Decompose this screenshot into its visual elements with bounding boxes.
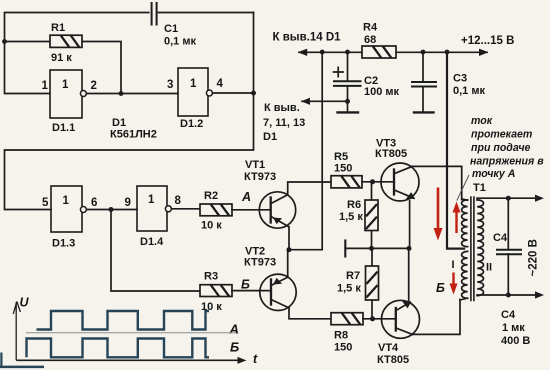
svg-text:С3: С3 [453,73,467,85]
svg-text:150: 150 [334,163,352,175]
svg-text:напряжения в: напряжения в [470,155,544,167]
svg-text:1,5 к: 1,5 к [337,283,361,295]
svg-text:3: 3 [167,79,173,91]
svg-text:68: 68 [364,34,376,46]
svg-text:Б: Б [241,278,250,292]
svg-text:1: 1 [190,78,197,90]
svg-text:D1: D1 [112,117,126,129]
svg-text:С4: С4 [501,309,516,321]
svg-text:U: U [20,296,30,310]
svg-text:5: 5 [42,197,49,209]
svg-text:10 к: 10 к [201,301,222,313]
svg-text:1: 1 [148,194,155,206]
svg-text:I: I [452,259,455,271]
svg-text:К561ЛН2: К561ЛН2 [110,129,157,141]
svg-text:1: 1 [62,79,69,91]
svg-text:К выв.14 D1: К выв.14 D1 [273,32,342,44]
svg-text:R7: R7 [346,270,360,282]
svg-text:1 мк: 1 мк [502,322,525,334]
svg-text:ток: ток [471,115,493,127]
svg-text:t: t [253,352,258,366]
svg-text:С4: С4 [493,232,508,244]
svg-text:точку А: точку А [472,168,515,180]
svg-text:VT4: VT4 [378,342,399,354]
svg-text:2: 2 [91,80,97,92]
svg-text:VT1: VT1 [245,159,265,171]
svg-text:D1.4: D1.4 [140,236,164,248]
svg-text:Б: Б [230,340,239,355]
svg-text:А: А [241,190,251,204]
svg-text:R3: R3 [204,271,218,283]
svg-text:К выв.: К выв. [264,102,300,114]
svg-text:1: 1 [42,80,49,92]
svg-text:КТ973: КТ973 [244,171,276,183]
svg-text:10 к: 10 к [201,220,222,232]
svg-text:0,1 мк: 0,1 мк [164,36,196,48]
svg-text:R8: R8 [334,330,348,342]
svg-text:Б: Б [436,281,445,295]
svg-text:6: 6 [91,197,97,209]
svg-text:150: 150 [334,342,352,354]
svg-text:4: 4 [217,78,224,90]
svg-text:D1.2: D1.2 [180,118,203,130]
svg-text:~220 В: ~220 В [528,239,540,276]
svg-text:протекает: протекает [471,129,532,141]
svg-text:при подаче: при подаче [471,142,531,154]
svg-text:100 мк: 100 мк [364,86,400,98]
svg-text:D1.1: D1.1 [52,122,75,134]
svg-text:R4: R4 [363,22,378,34]
svg-text:II: II [486,262,492,274]
svg-text:КТ805: КТ805 [375,148,407,160]
svg-text:С1: С1 [164,23,178,35]
svg-text:R6: R6 [347,199,361,211]
svg-text:+12...15 В: +12...15 В [461,35,514,47]
svg-text:R1: R1 [51,22,65,34]
svg-text:91 к: 91 к [51,52,72,64]
svg-text:1: 1 [63,195,70,207]
svg-text:D1: D1 [263,131,277,143]
svg-text:0,1 мк: 0,1 мк [453,85,485,97]
svg-text:R2: R2 [204,190,218,202]
svg-text:КТ973: КТ973 [244,257,276,269]
svg-text:D1.3: D1.3 [52,238,75,250]
svg-text:R5: R5 [334,151,348,163]
svg-text:КТ805: КТ805 [377,354,409,366]
svg-text:7, 11, 13: 7, 11, 13 [263,117,305,129]
svg-text:1,5 к: 1,5 к [339,211,363,223]
svg-text:Т1: Т1 [473,182,486,194]
svg-text:400 В: 400 В [501,335,530,347]
svg-text:9: 9 [125,197,131,209]
svg-text:А: А [229,322,239,337]
svg-text:8: 8 [175,195,182,207]
